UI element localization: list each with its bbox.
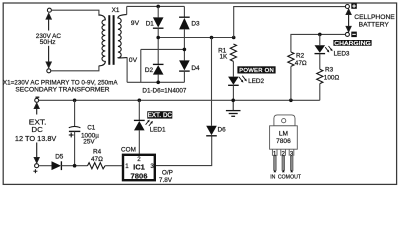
svg-text:LED3: LED3: [334, 50, 350, 57]
svg-text:R3: R3: [325, 67, 334, 74]
svg-text:LED1: LED1: [150, 127, 166, 134]
node 0V / D3-D4: [183, 48, 187, 52]
svg-text:1K: 1K: [220, 54, 229, 61]
battery + badge: [351, 3, 357, 9]
svg-text:7806: 7806: [131, 171, 148, 180]
node bridge mid R1 tap: [232, 36, 236, 40]
EXT DC minus sign: [36, 96, 40, 98]
R2 labels: [295, 53, 307, 68]
wire rail B (+ rail): [234, 7, 346, 38]
svg-text:7806: 7806: [276, 138, 291, 145]
svg-text:R2: R2: [296, 53, 305, 60]
svg-text:12 TO 13.8V: 12 TO 13.8V: [15, 134, 57, 143]
capacitor C1: [69, 100, 81, 165]
LED1: [134, 100, 153, 154]
border frame: [3, 3, 396, 184]
wire 0V drop to bridge bottom: [140, 49, 142, 82]
EXT DC arrows: [34, 103, 39, 162]
diode D1: [153, 6, 164, 37]
svg-text:CELLPHONE: CELLPHONE: [354, 14, 395, 21]
svg-text:47Ω: 47Ω: [91, 156, 103, 163]
LM7806 pin numbers: [273, 151, 294, 158]
230V AC 50Hz label: [36, 33, 62, 46]
wire IC1 out: [156, 136, 212, 165]
CELLPHONE BATTERY label: [354, 14, 395, 28]
svg-text:OUT: OUT: [290, 174, 302, 180]
battery + terminal: [345, 5, 349, 9]
svg-text:X1: X1: [112, 7, 120, 14]
resistor R3: [317, 69, 323, 83]
svg-text:COM: COM: [121, 146, 136, 153]
diode D4: [179, 49, 190, 82]
R3 labels: [324, 67, 340, 82]
svg-text:D1-D6=1N4007: D1-D6=1N4007: [142, 87, 186, 94]
node R2 bottom: [289, 99, 293, 103]
resistor R1: [230, 44, 236, 61]
svg-text:BATTERY: BATTERY: [359, 22, 390, 29]
svg-text:1: 1: [125, 163, 129, 170]
svg-text:LM: LM: [279, 130, 288, 137]
LM7806 pin names: [270, 174, 302, 180]
LED3: [315, 34, 333, 69]
svg-text:CHARGING: CHARGING: [334, 41, 371, 47]
svg-text:IC1: IC1: [133, 163, 146, 172]
transformer core: [108, 15, 114, 65]
EXT.DC label: [147, 111, 172, 119]
svg-text:SECONDARY TRANSFORMER: SECONDARY TRANSFORMER: [15, 86, 109, 93]
wire AC top to primary: [51, 10, 99, 16]
svg-text:COM: COM: [278, 174, 290, 180]
svg-text:C1: C1: [87, 125, 96, 132]
EXT DC labels: [15, 118, 57, 143]
LM7806 pin arrows: [274, 170, 294, 172]
transformer secondary winding: [118, 15, 127, 58]
wire R1 to LED2: [232, 61, 234, 76]
diode D3: [179, 6, 190, 49]
svg-text:0V: 0V: [129, 57, 138, 64]
wire R4 to IC1: [105, 165, 122, 167]
svg-text:3: 3: [150, 163, 154, 170]
battery - badge: [351, 32, 357, 37]
node ground tap: [231, 99, 235, 103]
svg-text:O/P: O/P: [162, 169, 173, 176]
resistor R4: [88, 163, 106, 169]
diode D6: [206, 38, 217, 136]
IC1 7806 box: [123, 155, 155, 181]
svg-text:2: 2: [137, 156, 141, 163]
wire secondary 9V riser: [126, 6, 128, 14]
svg-text:D2: D2: [145, 67, 154, 74]
wire rail A (9V rail): [127, 5, 185, 7]
node LED1 top: [138, 99, 142, 103]
svg-text:100Ω: 100Ω: [324, 75, 340, 82]
AC source terminal bottom: [47, 69, 51, 73]
svg-text:7.8V: 7.8V: [159, 177, 173, 184]
wire battery minus row: [291, 34, 346, 52]
svg-text:D4: D4: [191, 65, 200, 72]
svg-text:EXT. DC: EXT. DC: [148, 112, 173, 119]
resistor R2: [288, 52, 294, 66]
wire secondary 0V drop: [126, 57, 128, 82]
node C1 top: [73, 99, 77, 103]
POWER ON label: [237, 66, 275, 74]
svg-text:IN: IN: [270, 174, 275, 180]
wire bridge bottom row: [127, 81, 184, 83]
wire AC bottom to primary: [51, 66, 99, 71]
node bridge mid left: [156, 36, 160, 40]
svg-text:9V: 9V: [131, 20, 140, 27]
C1 labels: [81, 125, 99, 146]
EXT DC terminal top: [35, 98, 39, 102]
LM7806 legs: [274, 156, 293, 171]
svg-text:47Ω: 47Ω: [295, 60, 307, 67]
EXT DC plus sign: [33, 169, 37, 173]
diode D5: [52, 161, 88, 170]
AC source terminal top: [47, 8, 51, 12]
svg-text:D5: D5: [55, 153, 64, 160]
svg-text:D3: D3: [191, 20, 200, 27]
wire 0V row: [141, 48, 185, 50]
svg-text:D6: D6: [218, 126, 227, 133]
LM7806 pin stubs: [272, 149, 293, 156]
battery arrows: [346, 9, 351, 31]
svg-text:POWER ON: POWER ON: [239, 68, 274, 74]
node rail A / D1: [156, 5, 160, 9]
LM7806 package tab: [274, 115, 295, 126]
CHARGING label: [333, 40, 371, 47]
svg-text:50Hz: 50Hz: [40, 39, 56, 46]
svg-text:DC: DC: [31, 125, 43, 134]
R1 labels: [218, 47, 228, 60]
svg-text:R4: R4: [93, 149, 102, 156]
diode D2: [153, 38, 164, 83]
node bridge mid D6 tap: [210, 36, 214, 40]
svg-text:25V: 25V: [83, 139, 95, 146]
transformer primary winding: [99, 15, 105, 66]
node bridge bottom D2: [156, 81, 160, 85]
O/P labels: [159, 169, 173, 184]
svg-text:LED2: LED2: [248, 78, 264, 85]
wire EXT DC plus to D5: [38, 165, 51, 167]
wire bridge mid row: [158, 37, 234, 39]
wire R3 to ground rail: [319, 84, 321, 101]
node D5 / C1 junction: [73, 164, 77, 168]
ground symbol: [226, 100, 241, 116]
wire R2 to ground rail: [290, 66, 292, 100]
wire ground rail: [39, 99, 320, 101]
node minus row LED3 tap: [318, 33, 322, 37]
LED2: [228, 76, 247, 101]
battery - terminal: [345, 32, 349, 36]
svg-text:D1: D1: [146, 20, 155, 27]
X1 note text: [3, 79, 118, 93]
LM7806 package body: [270, 126, 298, 149]
R4 labels: [91, 149, 103, 164]
AC source arrows: [46, 14, 51, 68]
EXT DC terminal bottom: [35, 164, 39, 168]
